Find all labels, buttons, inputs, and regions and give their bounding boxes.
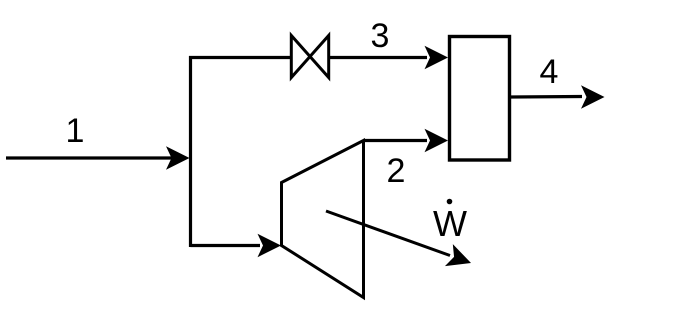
wire: compressor outlet, stream 2 bbox=[364, 139, 428, 142]
wire: valve to mixing chamber, stream 3 bbox=[329, 56, 427, 59]
arrowhead work bbox=[445, 244, 475, 274]
wire: top branch to valve bbox=[189, 56, 291, 59]
wire: inlet stream 1 horizontal bbox=[6, 156, 172, 159]
svg-text:3: 3 bbox=[371, 17, 390, 55]
svg-text:1: 1 bbox=[66, 112, 85, 150]
valve (throttle) right triangle bbox=[310, 36, 329, 78]
arrowhead stream 2 bbox=[425, 129, 449, 152]
compressor trapezoid bbox=[282, 141, 364, 298]
svg-text:W: W bbox=[433, 203, 467, 244]
arrowhead stream 4 bbox=[581, 85, 605, 108]
dot above W bbox=[447, 199, 453, 205]
wire: bottom branch to compressor bbox=[191, 244, 261, 247]
svg-text:4: 4 bbox=[540, 53, 559, 91]
arrowhead stream 3 bbox=[425, 46, 449, 69]
arrowhead into compressor bbox=[258, 234, 282, 257]
svg-text:2: 2 bbox=[387, 152, 406, 190]
wire: outlet stream 4 bbox=[511, 95, 582, 99]
mixing chamber box bbox=[450, 37, 510, 161]
valve (throttle) left triangle bbox=[291, 36, 310, 78]
wire: junction vertical riser bbox=[189, 56, 192, 247]
arrowhead stream 1 bbox=[166, 146, 190, 169]
wire: work shaft arrow bbox=[326, 211, 450, 256]
